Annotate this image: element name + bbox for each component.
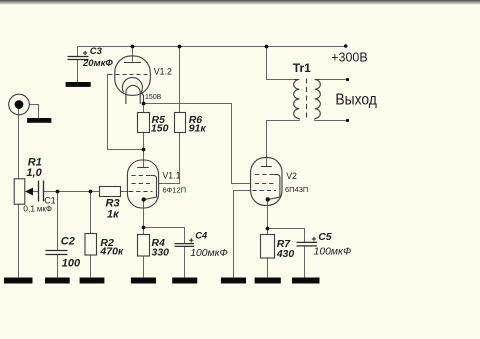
svg-text:Выход: Выход (335, 92, 377, 109)
svg-text:0,1: 0,1 (23, 204, 35, 214)
svg-text:6Ф12П: 6Ф12П (163, 186, 187, 195)
svg-text:V2: V2 (286, 171, 297, 181)
svg-text:470к: 470к (99, 246, 124, 258)
svg-text:C5: C5 (318, 231, 332, 243)
svg-text:V1.1: V1.1 (162, 170, 180, 180)
svg-text:100мкФ: 100мкФ (314, 247, 352, 258)
svg-text:C4: C4 (195, 231, 208, 241)
svg-text:C3: C3 (90, 46, 103, 57)
svg-text:330: 330 (152, 246, 170, 258)
svg-text:100: 100 (62, 257, 81, 269)
svg-text:1к: 1к (107, 209, 120, 221)
svg-text:V1.2: V1.2 (154, 67, 172, 77)
svg-text:150: 150 (151, 123, 169, 135)
svg-text:6П43П: 6П43П (285, 185, 308, 194)
svg-text:430: 430 (276, 248, 295, 260)
svg-text:1,0: 1,0 (26, 167, 42, 179)
svg-text:+300В: +300В (331, 51, 368, 65)
svg-text:Tr1: Tr1 (293, 61, 311, 75)
svg-text:C2: C2 (61, 236, 75, 248)
svg-text:91к: 91к (189, 123, 207, 135)
svg-text:150В: 150В (145, 94, 162, 101)
svg-text:мкФ: мкФ (37, 205, 52, 214)
svg-text:20мкФ: 20мкФ (82, 58, 113, 69)
svg-text:100мкФ: 100мкФ (190, 248, 228, 259)
